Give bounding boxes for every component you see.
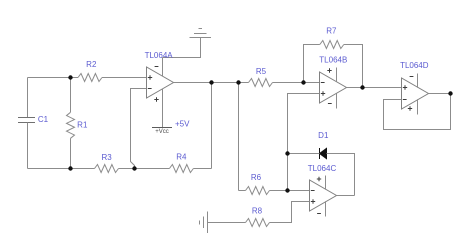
- wire R3 to feedback node: [119, 168, 170, 170]
- op-amp D top power minus label: [410, 76, 414, 78]
- node R6/op-amp C input junction: [285, 188, 289, 192]
- ground GND2: [200, 212, 208, 234]
- wire op-amp B output to op-amp D input: [347, 87, 402, 89]
- resistor R1: [67, 112, 75, 138]
- svg-text:C1: C1: [38, 115, 49, 124]
- wire R6 left lead: [239, 190, 246, 192]
- svg-text:R7: R7: [326, 27, 337, 36]
- svg-text:D1: D1: [318, 131, 329, 140]
- op-amp A plus input mark: [148, 75, 152, 79]
- svg-text:R6: R6: [251, 173, 262, 182]
- node R3/R4 feedback junction: [132, 166, 136, 170]
- op-amp A top power minus label: [155, 66, 159, 68]
- node op-amp D output junction: [448, 91, 452, 95]
- op-amp C top power stub: [325, 176, 327, 190]
- resistor R7: [320, 41, 344, 49]
- wire R7 loop left: [304, 45, 320, 83]
- capacitor C1: [18, 117, 35, 119]
- node R5/R7 junction: [301, 80, 305, 84]
- op-amp B minus input mark: [321, 82, 325, 84]
- op-amp B top power plus label: [327, 68, 331, 72]
- node R5/R6 junction: [236, 80, 240, 84]
- wire R6 to op-amp C inverting input: [270, 190, 310, 192]
- node R1/R3 bottom junction: [68, 166, 72, 170]
- wire op-amp C output: [337, 195, 355, 197]
- svg-text:+5V: +5V: [175, 120, 190, 129]
- wire R1 bottom lead: [70, 138, 72, 168]
- wire op-amp A power to ground: [163, 38, 201, 58]
- svg-text:TL064B: TL064B: [319, 56, 347, 65]
- wire bottom rail left: [28, 168, 95, 170]
- svg-text:R8: R8: [252, 207, 263, 216]
- resistor R3: [95, 165, 119, 173]
- svg-text:R4: R4: [176, 152, 187, 161]
- svg-text:R5: R5: [256, 67, 267, 76]
- svg-text:R2: R2: [86, 60, 97, 69]
- wire D1 to op-amp C output: [327, 154, 355, 196]
- svg-text:TL064C: TL064C: [308, 164, 337, 173]
- wire op-amp B non-inverting input: [288, 94, 320, 191]
- op-amp B bottom power stub: [336, 93, 338, 108]
- resistor R4: [169, 165, 193, 173]
- wire R5 to op-amp B inverting input: [273, 82, 320, 84]
- node dots: [68, 75, 452, 192]
- wire op-amp D output: [429, 93, 451, 95]
- wire C1 bottom lead: [27, 123, 29, 169]
- op-amp C bottom power stub: [325, 201, 327, 216]
- svg-text:R1: R1: [77, 121, 88, 130]
- op-amp D plus input mark: [403, 85, 407, 89]
- op-amp A top power stub: [162, 58, 164, 77]
- op-amp A bottom power plus label: [154, 97, 158, 101]
- power VCC bar: [152, 127, 172, 129]
- op-amp B bottom power minus label: [328, 103, 332, 105]
- op-amp D minus input mark: [403, 99, 407, 101]
- node R1/R2 top junction: [68, 75, 72, 79]
- op-amp C top power plus label: [317, 177, 321, 181]
- wire D1 anode lead: [288, 153, 320, 155]
- op-amp C plus input mark: [311, 199, 315, 203]
- op-amp D top power stub: [417, 74, 419, 88]
- wire top-left node rail: [28, 77, 79, 79]
- node op-amp A output junction: [209, 80, 213, 84]
- svg-text:+Vcc: +Vcc: [155, 129, 169, 135]
- op-amp A bottom power stub: [162, 89, 164, 128]
- op-amp C minus input mark: [311, 190, 315, 192]
- svg-text:TL064D: TL064D: [400, 61, 429, 70]
- op-amp B plus input mark: [321, 91, 325, 95]
- op-amp C bottom power minus label: [317, 213, 321, 215]
- op-amp D bottom power stub: [417, 99, 419, 114]
- wire R8 to ground: [208, 222, 246, 224]
- ground GND1: [190, 29, 212, 38]
- resistor R8: [246, 219, 270, 227]
- wire node down to R6: [238, 83, 240, 191]
- op-amp B top power stub: [336, 68, 338, 82]
- op-amp U1 TL064A: [147, 67, 174, 98]
- resistor R2: [78, 74, 102, 82]
- svg-text:TL064A: TL064A: [145, 51, 174, 60]
- wire R4 up to op-amp A output: [211, 83, 213, 169]
- op-amp A minus input mark: [148, 88, 152, 90]
- wire R4 right lead: [193, 168, 211, 170]
- wire R7 loop right: [344, 45, 363, 88]
- wire op-amp D feedback loop: [384, 94, 451, 130]
- wire op-amp A output rail: [174, 82, 249, 84]
- op-amp D bottom power plus label: [408, 106, 412, 110]
- node op-amp B output junction: [360, 85, 364, 89]
- wire op-amp C non-inverting input from R8: [270, 202, 310, 223]
- op-amp U4 TL064D: [402, 78, 429, 109]
- wire C1 top lead: [27, 78, 29, 118]
- op-amp U3 TL064C: [310, 180, 337, 211]
- diode D1: [320, 148, 327, 159]
- node D1 anode junction: [285, 151, 289, 155]
- resistor R6: [246, 187, 270, 195]
- svg-text:R3: R3: [101, 153, 112, 162]
- wire feedback to op-amp A inverting input: [131, 89, 147, 169]
- wire R2 to op-amp A non-inverting input: [102, 77, 147, 79]
- resistor R5: [249, 79, 273, 87]
- wire R1 top lead: [70, 78, 72, 113]
- op-amp U2 TL064B: [320, 72, 347, 103]
